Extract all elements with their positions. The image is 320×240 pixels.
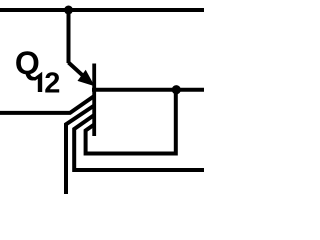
label Q12 — [15, 45, 60, 100]
wire: collector C2 diagonal and bottom stub — [66, 106, 94, 195]
subscript digit 1 (drawn, no foot serif) — [35, 72, 43, 92]
node: junction dot on base lead — [172, 85, 181, 94]
svg-text:Q: Q — [15, 45, 40, 81]
wire: collector C3 diagonal, down and right to right edge — [74, 115, 204, 170]
wire: top supply rail — [0, 8, 204, 12]
transistor Q12 emitter arrowhead (PNP, points into base) — [79, 71, 93, 85]
wire: collector C4 diagonal, hook to base (diode connection) — [86, 90, 176, 154]
svg-text:2: 2 — [44, 67, 60, 99]
wire: base lead to right edge — [92, 88, 204, 92]
wire: collector C1 diagonal and left wire — [0, 96, 94, 113]
transistor Q12 base bar — [92, 64, 96, 137]
transistor Q12 emitter arrow shaft — [69, 63, 85, 78]
wire: emitter lead vertical — [67, 10, 71, 63]
node: junction dot on top rail — [64, 6, 73, 15]
